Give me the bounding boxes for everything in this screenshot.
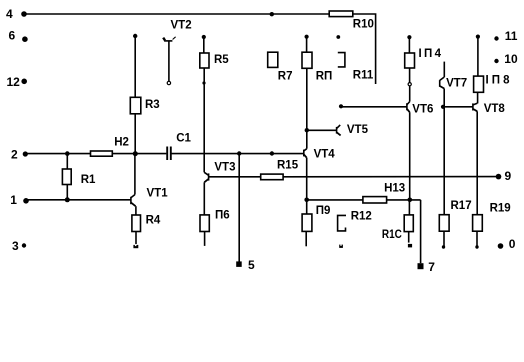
wire from R10 to right corner	[353, 14, 376, 84]
wire R13 row	[307, 199, 363, 201]
svg-text:3: 3	[12, 239, 19, 253]
svg-text:R5: R5	[214, 54, 229, 66]
svg-text:R12: R12	[351, 211, 372, 223]
svg-text:1: 1	[10, 193, 17, 207]
svg-text:RП: RП	[316, 70, 333, 82]
svg-text:H2: H2	[114, 136, 129, 148]
junction (stub) on C1 wire	[270, 151, 274, 155]
wire C1 to VT4 base	[172, 153, 304, 155]
svg-text:R7: R7	[278, 71, 293, 83]
node 1 terminal	[23, 198, 29, 204]
svg-text:VT2: VT2	[171, 20, 192, 32]
svg-text:VT3: VT3	[214, 161, 235, 173]
node 9 terminal	[496, 174, 502, 180]
resistor R8	[302, 35, 312, 131]
wire from terminal 2 to R2	[25, 153, 90, 155]
svg-text:7: 7	[428, 260, 435, 274]
resistor R10	[329, 11, 353, 17]
resistor R18	[474, 35, 484, 104]
svg-text:9: 9	[505, 169, 512, 183]
transistor VT4	[304, 128, 309, 200]
svg-text:П6: П6	[215, 209, 230, 221]
wire VT7 line down to R17	[443, 107, 445, 215]
junction R1 top	[65, 151, 70, 156]
transistor VT7	[440, 62, 445, 107]
node 6 terminal	[22, 36, 28, 42]
svg-text:R1: R1	[81, 174, 96, 186]
wire corner down to terminal 7	[420, 200, 422, 263]
transistor VT5	[307, 125, 341, 135]
svg-text:R3: R3	[145, 99, 160, 111]
resistor R2	[91, 151, 113, 156]
svg-text:R11: R11	[353, 70, 374, 82]
resistor R17	[439, 215, 449, 249]
svg-text:C1: C1	[176, 133, 191, 145]
node 7 terminal	[418, 263, 424, 269]
svg-text:6: 6	[9, 29, 16, 43]
wire R15 to terminal 9	[283, 176, 498, 178]
node 3 terminal	[22, 243, 26, 247]
transistor VT8	[473, 103, 477, 215]
junction R13 right / R16	[408, 198, 413, 203]
resistor R7 (floating)	[268, 52, 278, 67]
node 2 terminal	[23, 151, 28, 156]
resistor R12 (partial bracket)	[338, 215, 346, 231]
wire top rail from terminal 4 to R10	[24, 13, 329, 15]
resistor R5	[200, 35, 209, 172]
capacitor C1	[167, 147, 171, 161]
svg-text:12: 12	[7, 75, 21, 89]
svg-text:11: 11	[505, 29, 518, 43]
wire VT3 base / R15 row to terminal 9	[209, 176, 261, 178]
svg-text:R15: R15	[277, 160, 299, 172]
svg-text:R19: R19	[490, 202, 511, 214]
junction R3/VT1	[133, 151, 138, 156]
svg-text:R4: R4	[146, 215, 161, 227]
resistor R1	[62, 154, 71, 200]
svg-text:2: 2	[11, 147, 18, 161]
node 4 terminal	[21, 11, 27, 17]
node 12 terminal	[21, 79, 27, 85]
svg-text:VT8: VT8	[484, 103, 506, 115]
resistor R19	[473, 215, 483, 249]
junction on top rail	[270, 12, 274, 16]
wire VT7 line to VT8 base	[444, 106, 473, 108]
node 5 terminal	[236, 261, 242, 267]
svg-text:10: 10	[504, 52, 518, 66]
transistor VT3	[204, 172, 208, 215]
svg-text:0: 0	[509, 237, 516, 251]
svg-text:R10: R10	[353, 19, 374, 31]
junction R1 bottom	[65, 197, 70, 202]
junction wire to terminal 5	[237, 151, 241, 155]
wire R2 to C1	[112, 153, 166, 155]
node 0 terminal	[498, 243, 504, 249]
wire R13 to corner	[387, 199, 421, 201]
resistor R14	[405, 35, 415, 102]
svg-text:5: 5	[248, 258, 255, 272]
svg-text:VT6: VT6	[412, 103, 433, 115]
resistor R16	[404, 200, 413, 248]
svg-text:4: 4	[6, 7, 13, 21]
resistor R3	[130, 34, 141, 154]
wire terminal-5 line	[238, 154, 240, 262]
resistor R13	[363, 197, 387, 203]
svg-text:R17: R17	[451, 200, 472, 212]
junction VT4 emitter / R9 / R13	[304, 198, 309, 203]
svg-text:VT1: VT1	[147, 188, 169, 200]
svg-text:VT7: VT7	[446, 77, 467, 89]
wire terminal 1 to VT1 base	[26, 199, 131, 201]
svg-text:H13: H13	[384, 182, 405, 194]
terminator under R12	[339, 245, 343, 248]
node on VT6 base wire	[339, 104, 343, 108]
wire R11 node to VT6 base	[341, 106, 407, 108]
resistor R6	[200, 215, 209, 246]
node 10 terminal	[494, 59, 498, 63]
svg-text:П9: П9	[316, 205, 331, 217]
junction VT7 line to VT8 base	[441, 105, 445, 109]
transistor VT1	[131, 154, 136, 215]
node 11 terminal	[494, 36, 498, 40]
resistor R11 (partial bracket)	[336, 35, 345, 67]
transistor VT2	[163, 37, 175, 85]
resistor R9	[302, 200, 312, 247]
svg-text:R1С: R1С	[382, 229, 402, 241]
svg-text:VT4: VT4	[314, 149, 336, 161]
resistor R15	[261, 174, 283, 180]
svg-text:VT5: VT5	[347, 124, 369, 136]
transistor VT6	[407, 102, 410, 200]
resistor R4	[132, 215, 141, 248]
